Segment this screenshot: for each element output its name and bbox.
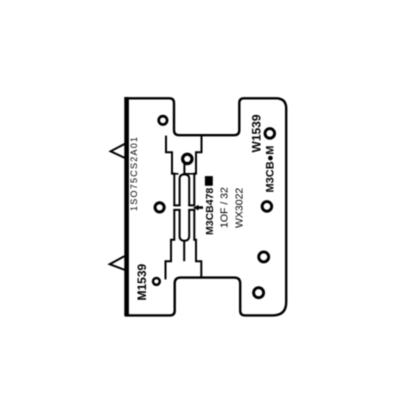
svg-text:1SO75CS2A01: 1SO75CS2A01 bbox=[129, 136, 139, 211]
svg-text:M3CB●M: M3CB●M bbox=[265, 146, 277, 193]
svg-text:W1539: W1539 bbox=[250, 114, 264, 152]
svg-text:WX3022: WX3022 bbox=[234, 188, 246, 228]
svg-text:M1539: M1539 bbox=[135, 263, 149, 300]
svg-text:M3CB478: M3CB478 bbox=[204, 188, 216, 235]
svg-text:1OF / 32: 1OF / 32 bbox=[219, 187, 231, 228]
